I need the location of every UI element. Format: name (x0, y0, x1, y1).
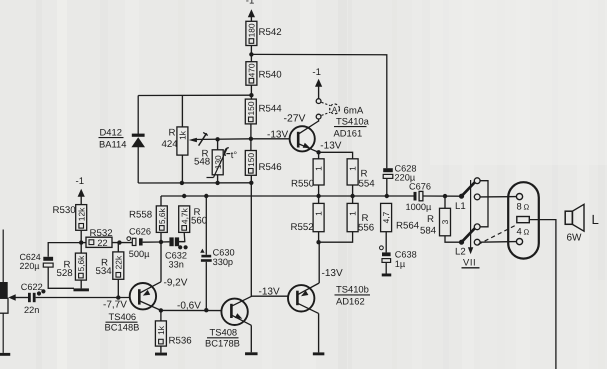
switch L1 lever (462, 181, 476, 196)
svg-text:1µ: 1µ (395, 259, 406, 269)
capacitor C624 220u (electrolytic) (20, 243, 82, 289)
jack pin 4 ohm (rectangle) (517, 217, 530, 223)
wire R554 bottom (352, 185, 354, 203)
wire R584 top stem (444, 196, 446, 208)
wire R532 junction to C626 (112, 242, 132, 244)
svg-text:L: L (592, 212, 599, 227)
test point circle upper (316, 99, 321, 104)
ground under R536 (155, 353, 167, 356)
wire TS410b collector to ground (318, 313, 320, 352)
wire R548 top stem (217, 139, 219, 150)
resistor R550 value 1 (291, 159, 324, 190)
switch contact 4 (474, 239, 480, 245)
connector block at left edge (0, 230, 8, 353)
svg-text:584: 584 (420, 226, 437, 237)
switch contact 1 (474, 178, 480, 184)
svg-text:R550: R550 (291, 179, 315, 190)
wire R534 top stem (117, 243, 119, 252)
junction dots after C632 (178, 245, 188, 249)
capacitor C676 1000u (electrolytic) (406, 181, 432, 212)
label 4 ohm (517, 226, 530, 237)
transistor TS410b (AD162) (288, 283, 319, 313)
svg-text:TS406: TS406 (109, 311, 137, 322)
wire contact2 to 8ohm pin (480, 196, 516, 198)
wire (318, 87, 320, 99)
wire node to C632 (161, 241, 169, 243)
resistor R542 value 180 (246, 21, 282, 45)
svg-text:1: 1 (348, 166, 358, 171)
wire R584 bottom to L2 (445, 236, 462, 242)
node R534/base junction (116, 295, 120, 299)
wire 4ohm pin to speaker line (529, 220, 556, 369)
svg-text:-1: -1 (312, 67, 321, 78)
wire R528 bottom to ground (80, 280, 82, 288)
resistor R554 value 1 (347, 159, 375, 190)
svg-text:556: 556 (358, 223, 374, 234)
resistor R530 value 12k (53, 205, 87, 231)
node R542/R540 junction (249, 52, 253, 56)
svg-text:BA114: BA114 (99, 139, 126, 150)
resistor R528 value 5,6k (57, 253, 87, 280)
label 8 ohm (517, 200, 530, 211)
wire R552 bottom (318, 232, 320, 243)
svg-text:500µ: 500µ (129, 249, 150, 259)
svg-text:424: 424 (162, 139, 179, 150)
svg-text:22n: 22n (24, 305, 39, 315)
resistor R548 value 130 (194, 149, 223, 175)
svg-text:33n: 33n (169, 259, 184, 269)
svg-text:C622: C622 (21, 282, 43, 292)
wire (250, 46, 252, 62)
svg-text:-13V: -13V (320, 141, 341, 152)
capacitor C630 330p (200, 196, 234, 310)
resistor R556 value 1 (347, 203, 374, 233)
svg-text:C638: C638 (395, 249, 417, 259)
resistor R540 value 470 (246, 62, 282, 85)
svg-text:VII: VII (463, 257, 476, 268)
wire R546 bottom down to TS408 collector (250, 175, 252, 296)
svg-text:330p: 330p (213, 257, 233, 267)
switch actuator bar with arrow (468, 180, 473, 254)
svg-text:-1: -1 (246, 0, 255, 7)
thermistor diagonal and t-mark R548 (207, 148, 238, 178)
svg-text:C676: C676 (409, 181, 431, 191)
wire output rail (161, 195, 414, 197)
wire C632 to R560 stem (179, 241, 185, 243)
node C630 bottom (204, 308, 208, 312)
wire R548 bottom stem (217, 175, 219, 183)
wire R558 top stem (160, 196, 162, 206)
node L1 common (459, 194, 464, 199)
svg-text:560: 560 (191, 216, 208, 227)
node TS410a emitter (316, 150, 320, 154)
resistor R546 value 150 (245, 151, 281, 176)
svg-text:548: 548 (194, 157, 210, 168)
svg-text:BC148B: BC148B (105, 321, 140, 332)
loudspeaker jack (stadium outline) (508, 182, 539, 258)
svg-text:R546: R546 (259, 162, 282, 173)
svg-text:-27V: -27V (284, 113, 306, 124)
svg-text:R558: R558 (129, 210, 152, 221)
wire (250, 85, 252, 99)
wire C622 to TS406 base (36, 297, 130, 299)
wire R558 bottom stem (160, 232, 162, 242)
wire TS408 collector to TS410b base (251, 295, 287, 297)
wire output rail right of C676 (423, 195, 462, 197)
svg-text:22k: 22k (113, 255, 123, 269)
svg-text:180: 180 (247, 23, 257, 37)
svg-text:R544: R544 (259, 104, 283, 115)
svg-text:4,7k: 4,7k (179, 207, 189, 224)
resistor R558 value 5,6k (129, 206, 167, 233)
svg-text:-9,2V: -9,2V (164, 278, 188, 289)
wire wiper to -13V node (193, 138, 251, 141)
node TS406 emitter (159, 308, 163, 312)
svg-text:-7,7V: -7,7V (103, 299, 127, 310)
svg-text:22: 22 (97, 238, 107, 248)
svg-text:1: 1 (314, 211, 324, 216)
svg-text:220µ: 220µ (20, 261, 40, 271)
switch contact 3 (474, 224, 480, 230)
wire TS410b emitter up to R552/R556 (318, 242, 320, 283)
svg-text:Ω: Ω (524, 202, 530, 211)
resistor R560 value 4,7k (179, 206, 208, 233)
potentiometer wiper arrow R424 (189, 132, 208, 145)
node wiper/R548 junction (215, 137, 219, 141)
node R552/R556 junction (316, 240, 320, 244)
wire emitter to R550 top (318, 152, 320, 159)
wire R424 top stem (181, 95, 183, 127)
node rail R584 (443, 194, 447, 198)
svg-text:TS410a: TS410a (336, 115, 370, 126)
svg-text:Ω: Ω (524, 228, 530, 237)
svg-text:8: 8 (517, 200, 522, 211)
svg-text:C626: C626 (129, 226, 151, 236)
svg-text:D412: D412 (100, 127, 122, 138)
wire emitter node to R536 (160, 310, 162, 321)
svg-text:534: 534 (96, 266, 113, 277)
capacitor C638 1u (electrolytic) (380, 246, 417, 274)
label VII (462, 257, 480, 268)
svg-text:L1: L1 (455, 201, 466, 212)
svg-text:4: 4 (517, 226, 522, 237)
ground at left edge bottom (0, 353, 10, 356)
ground under C638 (382, 274, 392, 277)
arrow into connector (8, 294, 15, 300)
wire (80, 197, 82, 205)
switch L2 lever (462, 227, 476, 242)
power rail -1 (above TS410a) (312, 67, 322, 87)
capacitor C626 500u (electrolytic) (127, 226, 151, 258)
svg-text:R540: R540 (259, 70, 283, 81)
capacitor C632 33n (165, 237, 187, 269)
capacitor C628 220u (383, 164, 416, 183)
svg-text:t°: t° (231, 149, 238, 160)
svg-text:-1: -1 (76, 176, 85, 187)
wire R424 bottom stem (181, 155, 183, 183)
svg-text:1k: 1k (156, 325, 166, 335)
svg-text:TS408: TS408 (210, 327, 238, 338)
test point circle lower (316, 114, 321, 119)
label TS406 BC148B (105, 311, 140, 333)
resistor R536 value 1k (155, 321, 191, 347)
resistor R424 value 1k (162, 127, 188, 155)
wire C628 to output rail (386, 178, 388, 196)
wire R530 bottom (80, 230, 82, 253)
jack pin return (516, 239, 522, 245)
wire contact1 to bracket (480, 181, 488, 227)
resistor R544 value 150 (245, 99, 282, 124)
capacitor C622 22n (21, 282, 43, 315)
svg-text:R542: R542 (259, 27, 282, 38)
svg-text:R: R (427, 214, 434, 225)
wire R564 bottom to C638 (385, 232, 387, 253)
wire R550 bottom (318, 185, 320, 203)
switch contact 2 (474, 194, 480, 200)
svg-text:6W: 6W (567, 233, 583, 244)
node rail C630 top (204, 194, 208, 198)
power rail -1 (left, above R530) (76, 176, 85, 197)
svg-text:AD162: AD162 (336, 295, 365, 306)
ground under TS408 (245, 352, 257, 355)
transistor TS410a (AD161) (290, 119, 319, 152)
power rail -1 (top center) (246, 0, 255, 17)
svg-text:150: 150 (246, 101, 256, 115)
node -13V base tap TS410a (249, 137, 253, 141)
wire -0.6V line to TS408 base (161, 309, 222, 311)
wire node to R532 (81, 242, 86, 244)
wire arrow to C622 (15, 297, 29, 299)
wire R560 bottom stem (179, 232, 185, 241)
label TS410a AD161 (334, 115, 370, 138)
transistor TS406 (BC148B) (130, 282, 161, 311)
diode D412 BA114 (99, 96, 146, 184)
resistor R534 value 22k (96, 252, 124, 279)
node R532/R534 junction (117, 240, 121, 244)
wire (250, 124, 252, 151)
wire TS408 emitter to ground (250, 325, 252, 352)
resistor R584 value 3 (420, 208, 451, 236)
node L2 common (459, 240, 464, 245)
node box bottom at R548 (215, 181, 219, 185)
svg-text:TS410b: TS410b (336, 284, 369, 295)
ammeter 6mA (dashed) (322, 102, 364, 116)
resistor R532 value 22 (horizontal) (86, 228, 113, 248)
svg-text:1000µ: 1000µ (406, 202, 432, 212)
node rail R550/R552 (316, 194, 320, 198)
svg-text:1: 1 (348, 211, 358, 216)
wire emitter to R554 top (319, 152, 353, 159)
node R540/R544 junction (249, 93, 253, 97)
node box bottom right (249, 181, 253, 185)
svg-text:-13V: -13V (322, 268, 343, 279)
wire (250, 17, 252, 21)
wire R536 bottom (160, 346, 162, 353)
transistor TS408 (BC178B) (221, 296, 251, 325)
svg-text:-0,6V: -0,6V (177, 300, 201, 311)
wire contact4 to 4ohm return (480, 241, 516, 244)
svg-text:R536: R536 (169, 336, 192, 347)
wire TS410a base (251, 138, 290, 140)
svg-text:BC178B: BC178B (205, 338, 240, 349)
svg-text:12k: 12k (76, 207, 86, 221)
svg-text:554: 554 (359, 179, 376, 190)
jack pin 8 ohm (516, 194, 522, 200)
svg-text:470: 470 (247, 63, 257, 77)
svg-text:-13V: -13V (259, 287, 280, 298)
resistor R564 value 4,7 (381, 203, 420, 231)
wire box bottom line (138, 182, 251, 184)
wire C626 to node (143, 241, 161, 243)
wire R556 bottom to junction (319, 232, 353, 243)
resistor R552 value 1 (291, 203, 325, 233)
node rail R554/R556 (350, 194, 354, 198)
svg-text:5,6k: 5,6k (157, 207, 167, 224)
svg-text:150: 150 (246, 153, 256, 167)
svg-text:R: R (169, 128, 176, 139)
ground under TS410b (313, 352, 325, 355)
svg-text:R552: R552 (291, 222, 314, 233)
wire TS406 collector up to C626 node (160, 242, 162, 282)
svg-text:1: 1 (314, 166, 324, 171)
node C626/R558/collector junction (159, 240, 163, 244)
svg-text:4,7: 4,7 (381, 211, 391, 223)
label TS410b AD162 (335, 284, 371, 307)
svg-text:528: 528 (57, 268, 73, 279)
svg-text:AD161: AD161 (334, 127, 363, 138)
loudspeaker symbol (565, 204, 584, 231)
svg-text:-13V: -13V (267, 130, 288, 141)
svg-text:R564: R564 (396, 221, 420, 232)
ground under R528 (73, 288, 89, 291)
svg-text:5,6k: 5,6k (76, 255, 86, 272)
node rail C628/R564 (385, 194, 389, 198)
svg-text:1k: 1k (178, 130, 188, 140)
svg-text:3: 3 (440, 219, 450, 224)
wire box top line (138, 94, 251, 96)
label TS408 BC178B (205, 327, 240, 349)
svg-text:R530: R530 (53, 205, 77, 216)
node R530/R532/R528/C624 (79, 240, 83, 244)
svg-text:R532: R532 (90, 228, 113, 239)
node rail R560 top (182, 194, 186, 198)
wire R534 bottom stem (117, 279, 119, 297)
junction dots after C622 (37, 289, 46, 295)
wire bootstrap from R542/R540 junction (251, 54, 386, 168)
node box bottom at R424 (180, 181, 184, 185)
dashed mechanical link to 4ohm jack (478, 225, 517, 245)
